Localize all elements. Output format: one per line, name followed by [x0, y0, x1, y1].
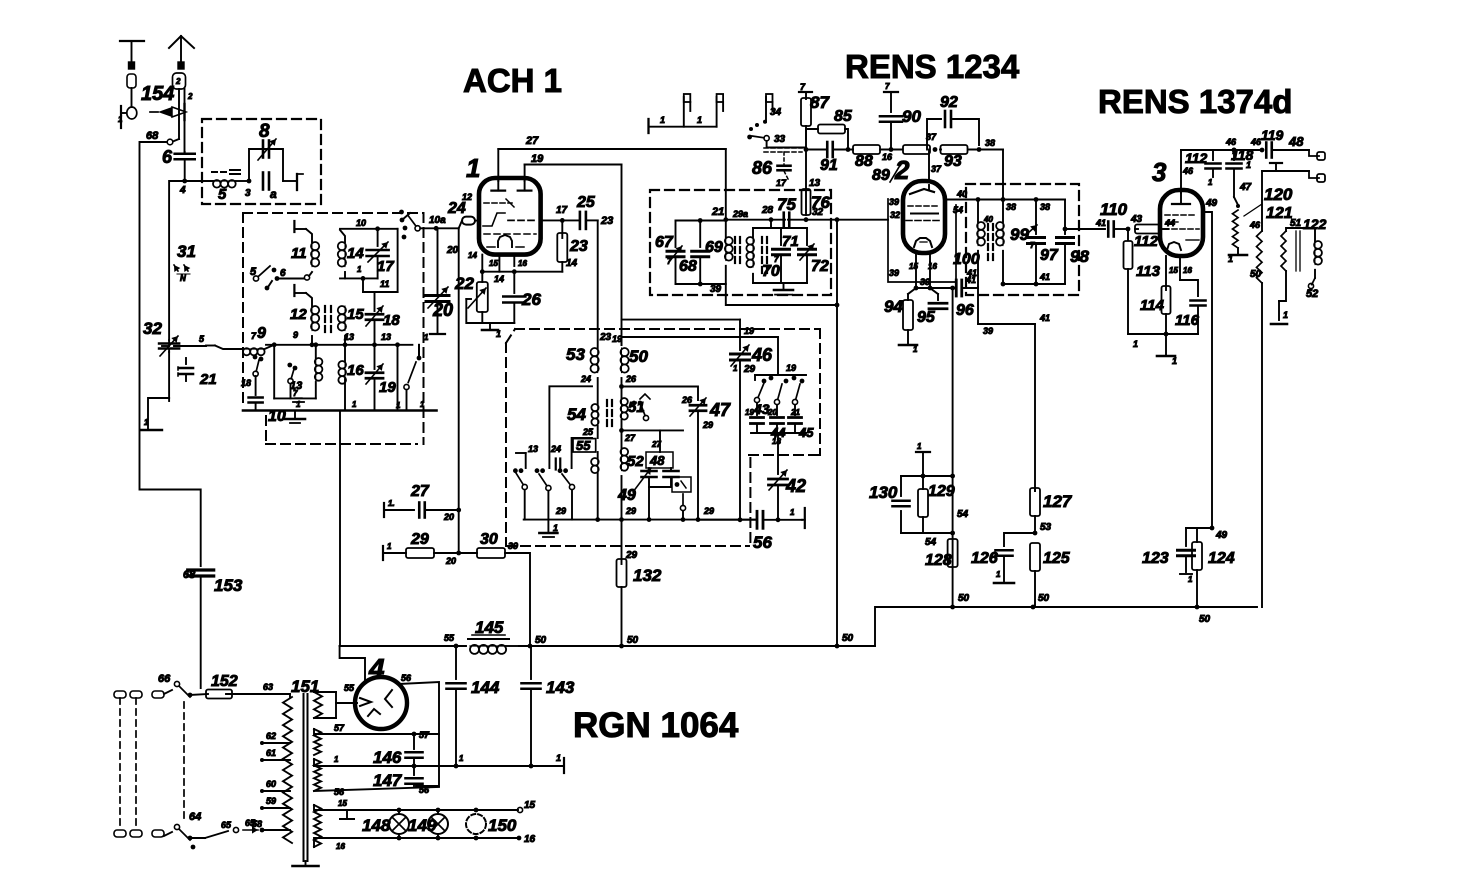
- svg-text:132: 132: [633, 566, 662, 585]
- capacitor 67 variable: [655, 221, 684, 285]
- svg-text:49: 49: [1215, 530, 1228, 541]
- ground IF1: [774, 290, 793, 295]
- terminal 65: [205, 818, 264, 838]
- svg-text:100: 100: [953, 251, 980, 268]
- capacitor 45: [789, 405, 815, 440]
- svg-text:19: 19: [612, 334, 622, 344]
- svg-text:98: 98: [1070, 247, 1089, 266]
- capacitor 144: [447, 646, 500, 766]
- svg-text:60: 60: [266, 779, 276, 789]
- capacitor 20 variable: [424, 228, 453, 342]
- resistor 30: [459, 531, 530, 646]
- svg-text:14: 14: [566, 258, 578, 269]
- rectifier tube U4: [355, 677, 407, 729]
- label 8: [259, 121, 270, 142]
- wire 41 down to 127: [977, 288, 979, 324]
- tube4 anode pin 56: [399, 682, 439, 786]
- node 25: [597, 426, 599, 438]
- switch linkage dashed: [183, 702, 185, 822]
- svg-text:56: 56: [334, 787, 345, 797]
- svg-text:1: 1: [1208, 178, 1213, 187]
- svg-text:1: 1: [396, 401, 401, 410]
- svg-text:154: 154: [141, 83, 174, 105]
- capacitor 49: [617, 468, 651, 504]
- svg-text:50: 50: [535, 635, 547, 646]
- coil 11: [291, 242, 319, 267]
- svg-text:38: 38: [1006, 202, 1016, 212]
- capacitor 126: [971, 533, 1035, 581]
- svg-text:8: 8: [259, 121, 270, 142]
- tube2 pins: [915, 253, 917, 282]
- svg-text:56: 56: [753, 533, 772, 552]
- svg-text:26: 26: [681, 395, 693, 405]
- svg-text:RENS 1234: RENS 1234: [845, 48, 1020, 85]
- svg-text:143: 143: [546, 678, 575, 697]
- mains terminals bottom: [114, 830, 164, 837]
- svg-text:6: 6: [280, 268, 286, 279]
- switch 10a: [399, 210, 462, 240]
- wire 29a 32 grid line: [726, 219, 785, 221]
- tube3 pins: [1165, 256, 1167, 290]
- svg-text:1: 1: [1228, 254, 1233, 264]
- svg-text:1: 1: [790, 508, 795, 517]
- svg-text:44: 44: [1164, 218, 1175, 228]
- svg-text:50: 50: [1038, 593, 1050, 604]
- svg-text:4: 4: [179, 185, 186, 196]
- capacitor 118: [1227, 147, 1254, 197]
- capacitor 27: [410, 483, 461, 522]
- svg-text:93: 93: [944, 153, 962, 170]
- svg-text:29a: 29a: [732, 209, 748, 219]
- svg-text:27: 27: [624, 433, 636, 443]
- dashed box IF1: [650, 190, 831, 295]
- mains terminals top: [114, 691, 164, 698]
- node 13 top: [804, 147, 809, 152]
- svg-text:10: 10: [356, 218, 366, 228]
- terminal bar pickup: [649, 115, 717, 133]
- svg-text:54: 54: [957, 509, 969, 520]
- rail jog: [875, 607, 1257, 646]
- capacitor 72 variable: [799, 228, 829, 283]
- label 4 tube4: [368, 653, 385, 684]
- pentode tube U3: [1160, 190, 1203, 256]
- rail 50 left: [340, 645, 466, 647]
- svg-text:14: 14: [494, 274, 504, 284]
- svg-text:49: 49: [617, 487, 636, 504]
- svg-text:39: 39: [710, 284, 722, 295]
- grid cap 24: [447, 200, 479, 225]
- svg-text:25: 25: [582, 427, 594, 437]
- svg-text:56: 56: [401, 673, 412, 683]
- svg-text:1: 1: [553, 523, 558, 533]
- dashed box IF2: [966, 184, 1079, 295]
- svg-text:75: 75: [777, 195, 796, 214]
- tap wire 25: [572, 438, 592, 468]
- tube1 electrodes: [483, 181, 538, 247]
- svg-text:32: 32: [143, 319, 162, 338]
- svg-text:21: 21: [199, 371, 217, 388]
- svg-text:27: 27: [410, 483, 430, 500]
- svg-text:32: 32: [890, 210, 900, 220]
- node 13 wire: [266, 344, 412, 346]
- lamp 149: [408, 808, 448, 841]
- svg-text:1: 1: [1188, 575, 1193, 584]
- svg-text:16: 16: [1183, 266, 1192, 275]
- capacitor 26: [503, 272, 541, 323]
- svg-text:147: 147: [373, 771, 403, 790]
- svg-text:1: 1: [733, 364, 738, 373]
- svg-text:ACH 1: ACH 1: [463, 62, 562, 99]
- title ACH 1: [463, 62, 562, 99]
- capacitor 147: [373, 766, 423, 790]
- svg-text:26: 26: [521, 290, 541, 309]
- svg-text:1: 1: [996, 570, 1001, 579]
- svg-text:42: 42: [785, 476, 806, 496]
- capacitor 47: [622, 387, 732, 520]
- svg-text:16: 16: [882, 152, 893, 162]
- resistor 120 zigzag: [1233, 185, 1293, 255]
- capacitor 44: [770, 405, 786, 440]
- svg-text:33: 33: [774, 134, 786, 145]
- svg-text:39: 39: [920, 277, 930, 287]
- resistor 113: [1124, 229, 1161, 334]
- secondary S1 to tube4: [314, 692, 357, 718]
- svg-text:68: 68: [146, 130, 159, 142]
- svg-text:122: 122: [1303, 216, 1327, 232]
- terminal 16: [517, 834, 536, 845]
- svg-text:69: 69: [705, 239, 723, 256]
- wire node 68 left down: [140, 142, 201, 566]
- svg-text:144: 144: [471, 678, 500, 697]
- coil 55: [573, 438, 599, 520]
- svg-text:16: 16: [336, 842, 345, 851]
- svg-text:54: 54: [925, 537, 937, 548]
- resistor 94: [884, 288, 916, 345]
- svg-text:1: 1: [913, 345, 918, 354]
- triode-hexode tube U1: [479, 178, 541, 255]
- label 154: [141, 83, 174, 105]
- wire 54 long vertical: [950, 286, 955, 291]
- resistor 22 potentiometer: [454, 272, 488, 323]
- svg-text:N: N: [180, 274, 186, 283]
- svg-text:1: 1: [334, 755, 339, 764]
- svg-text:26: 26: [625, 374, 637, 384]
- capacitor 110: [1095, 200, 1143, 237]
- svg-text:1: 1: [352, 400, 357, 409]
- switch 33: [747, 134, 805, 148]
- svg-text:14: 14: [468, 251, 477, 260]
- coil 53: [566, 345, 599, 373]
- capacitor 8 variable: [249, 139, 283, 181]
- svg-text:130: 130: [869, 483, 898, 502]
- resistor 112: [1134, 225, 1168, 251]
- coil 69: [705, 220, 733, 295]
- svg-text:119: 119: [1261, 127, 1284, 143]
- coil 11 bottom connector: [309, 272, 312, 276]
- svg-text:56: 56: [419, 785, 430, 795]
- svg-text:68: 68: [679, 258, 697, 275]
- resistor 85: [806, 108, 853, 152]
- resistor 88: [853, 145, 902, 170]
- svg-text:15: 15: [524, 800, 536, 811]
- label 12: [462, 192, 472, 202]
- capacitor 32 variable: [143, 319, 179, 356]
- svg-text:96: 96: [956, 302, 974, 319]
- svg-text:43: 43: [753, 401, 770, 417]
- svg-text:29: 29: [410, 531, 429, 548]
- svg-text:1: 1: [660, 115, 665, 125]
- wire left col from 4 to 32: [168, 340, 170, 346]
- svg-text:2: 2: [187, 92, 193, 101]
- svg-text:55: 55: [576, 438, 591, 453]
- svg-text:110: 110: [1100, 200, 1128, 219]
- mains dashed leads: [120, 698, 136, 830]
- svg-text:1: 1: [496, 329, 501, 339]
- svg-text:15: 15: [338, 799, 347, 808]
- svg-text:1: 1: [697, 115, 702, 125]
- svg-text:14: 14: [347, 245, 364, 262]
- svg-text:47: 47: [709, 400, 731, 420]
- node 17: [560, 218, 565, 223]
- svg-text:66: 66: [158, 673, 171, 685]
- svg-text:19: 19: [379, 379, 396, 396]
- svg-text:38: 38: [1040, 202, 1050, 212]
- ground 94: [899, 345, 918, 354]
- svg-text:24: 24: [447, 200, 466, 217]
- svg-text:28: 28: [761, 205, 774, 216]
- wire 38 down: [1002, 150, 1004, 200]
- capacitor 75: [777, 195, 796, 227]
- svg-text:148: 148: [362, 816, 391, 835]
- title RENS 1234: [845, 48, 1020, 85]
- svg-text:53: 53: [1040, 522, 1052, 533]
- svg-text:71: 71: [782, 233, 799, 250]
- svg-text:48: 48: [649, 453, 665, 468]
- tuner bottom rail: [243, 409, 437, 412]
- switch 5 6: [250, 266, 304, 290]
- svg-text:16: 16: [524, 834, 536, 845]
- svg-text:113: 113: [1136, 263, 1161, 280]
- coil 54: [567, 404, 599, 426]
- capacitor 97: [1027, 200, 1059, 285]
- coil 12: [290, 306, 319, 331]
- svg-text:7: 7: [885, 82, 890, 91]
- svg-text:2: 2: [175, 77, 181, 86]
- svg-text:70: 70: [762, 263, 780, 280]
- trimmer 86: [752, 148, 802, 188]
- capacitor 91: [806, 142, 853, 174]
- IF2 bottom wire 41: [1003, 283, 1065, 285]
- capacitor 112b: [1185, 150, 1221, 187]
- resistor 93: [940, 138, 995, 170]
- wire 27 from tube1: [497, 149, 499, 181]
- svg-text:1: 1: [144, 418, 149, 427]
- svg-text:63: 63: [263, 682, 273, 692]
- svg-text:7: 7: [667, 257, 672, 266]
- capacitor 21 trimmer: [178, 358, 217, 388]
- svg-text:51: 51: [1290, 218, 1302, 229]
- svg-text:57: 57: [334, 723, 345, 733]
- capacitor 90: [880, 82, 921, 152]
- svg-text:52: 52: [1306, 288, 1318, 300]
- svg-text:1: 1: [1133, 339, 1138, 349]
- svg-text:13: 13: [809, 178, 821, 189]
- svg-text:41: 41: [1039, 272, 1050, 282]
- coil 52: [621, 448, 645, 520]
- tube2 top pin wire 37: [928, 150, 930, 182]
- svg-text:13: 13: [528, 444, 538, 454]
- wire 22 26 bottom loop: [466, 299, 514, 323]
- svg-text:50: 50: [629, 347, 648, 366]
- wire 39 below box: [726, 295, 837, 305]
- svg-text:3: 3: [1152, 157, 1167, 187]
- primary top wire 63: [226, 694, 290, 697]
- lamp 150 dashed: [466, 808, 517, 841]
- svg-text:153: 153: [214, 576, 243, 595]
- svg-text:89: 89: [872, 167, 890, 184]
- svg-text:9: 9: [293, 330, 298, 340]
- wire 13 resistor 76 up: [805, 150, 807, 189]
- node 21: [723, 217, 728, 222]
- svg-text:RGN 1064: RGN 1064: [573, 706, 739, 745]
- svg-text:18: 18: [383, 312, 400, 329]
- svg-text:31: 31: [177, 242, 196, 261]
- svg-text:112: 112: [1134, 233, 1159, 250]
- capacitor 10: [268, 398, 304, 425]
- svg-text:1: 1: [1246, 160, 1251, 170]
- ground 120: [1228, 254, 1247, 264]
- heater winding S4: [314, 805, 518, 847]
- node 53: [1033, 531, 1038, 536]
- capacitor 46: [731, 320, 774, 520]
- capacitor 146: [373, 734, 423, 767]
- coil 15: [338, 306, 365, 345]
- svg-text:1.: 1.: [388, 499, 395, 508]
- bottom wire 1: [325, 765, 564, 767]
- wire 19 upper horizontal: [622, 319, 741, 321]
- svg-text:54: 54: [567, 405, 586, 424]
- svg-text:46: 46: [1182, 166, 1194, 176]
- svg-text:16: 16: [518, 259, 527, 268]
- coil 12 bottom wire: [311, 336, 313, 345]
- svg-text:114: 114: [1140, 297, 1165, 314]
- svg-text:47: 47: [1239, 182, 1252, 193]
- svg-text:116: 116: [1175, 312, 1200, 329]
- capacitor 56: [753, 508, 805, 552]
- wire 32 to coil 9: [168, 352, 170, 398]
- output jack bottom: [1246, 160, 1325, 182]
- svg-text:29: 29: [702, 420, 713, 430]
- svg-text:76: 76: [811, 193, 830, 212]
- wire IF2 out to 110: [1065, 228, 1105, 230]
- svg-text:129: 129: [928, 483, 955, 500]
- choke 145: [468, 618, 519, 654]
- node 26: [621, 378, 623, 398]
- tank 14 bottom wire: [340, 277, 378, 279]
- svg-text:20: 20: [443, 512, 454, 522]
- svg-text:27: 27: [651, 440, 661, 449]
- label 2 tube2: [890, 155, 910, 185]
- resistor 124: [1186, 528, 1235, 607]
- svg-text:41: 41: [1039, 313, 1050, 323]
- oscillator dashed box: [506, 329, 820, 546]
- svg-text:49: 49: [1205, 198, 1218, 209]
- ground tube3: [1157, 334, 1177, 366]
- svg-text:37: 37: [931, 164, 942, 174]
- svg-text:40: 40: [983, 215, 993, 224]
- svg-text:112: 112: [1185, 150, 1208, 166]
- resistor 132: [617, 520, 662, 646]
- svg-text:87: 87: [810, 93, 830, 112]
- resistor 87: [801, 93, 830, 150]
- svg-text:46: 46: [1250, 137, 1262, 147]
- svg-text:1: 1: [917, 442, 922, 451]
- svg-text:1: 1: [466, 153, 480, 183]
- svg-text:25: 25: [576, 194, 596, 211]
- svg-text:15: 15: [909, 262, 918, 271]
- coil 5: [185, 170, 249, 203]
- svg-text:127: 127: [1043, 492, 1073, 511]
- capacitor 17 variable: [367, 229, 395, 279]
- svg-text:1: 1: [556, 753, 561, 763]
- wire 29 30 row: [382, 546, 384, 560]
- svg-text:18: 18: [772, 437, 781, 446]
- node 49 right: [1210, 526, 1215, 531]
- core dashes osc: [607, 400, 612, 426]
- switch box 43 44 45: [745, 363, 806, 417]
- svg-text:53: 53: [566, 345, 585, 364]
- jack 7 res87: [799, 82, 812, 99]
- wire node 4 down-left: [169, 181, 185, 340]
- svg-text:50: 50: [842, 633, 854, 644]
- svg-text:19: 19: [744, 326, 754, 336]
- tank 67 68 top wire: [676, 218, 726, 223]
- svg-text:39: 39: [508, 541, 518, 551]
- svg-text:11: 11: [380, 279, 389, 289]
- resistor 76: [802, 189, 831, 222]
- secondary S2: [314, 723, 439, 755]
- svg-text:15: 15: [489, 259, 498, 268]
- svg-text:86: 86: [752, 158, 773, 178]
- svg-text:1: 1: [1172, 356, 1177, 366]
- ground 122: [1271, 301, 1288, 324]
- svg-text:17: 17: [556, 205, 568, 216]
- rail nodes: [1031, 605, 1036, 610]
- svg-text:64: 64: [189, 811, 201, 823]
- tube3 top pin wire: [1180, 150, 1182, 193]
- terminal 1 coil 11: [294, 221, 312, 242]
- node 4: [182, 179, 187, 184]
- coil 9: [206, 325, 274, 355]
- svg-text:50: 50: [1250, 269, 1262, 280]
- svg-text:90: 90: [902, 107, 921, 126]
- capacitor 48: [622, 430, 692, 519]
- tank 70 top wire: [753, 227, 807, 229]
- ground tuner: [285, 411, 305, 424]
- svg-text:22: 22: [454, 274, 474, 293]
- svg-text:18: 18: [241, 378, 251, 388]
- resistor 89: [872, 132, 937, 184]
- svg-text:1: 1: [424, 333, 429, 342]
- output jack top: [1288, 134, 1325, 160]
- svg-text:48: 48: [1288, 134, 1304, 149]
- svg-text:12: 12: [290, 306, 307, 323]
- resistor 152: [206, 673, 290, 699]
- svg-text:65: 65: [245, 818, 256, 828]
- tube2 electrodes: [906, 185, 940, 247]
- svg-text:24: 24: [580, 374, 591, 384]
- tube3 electrodes: [1164, 166, 1199, 250]
